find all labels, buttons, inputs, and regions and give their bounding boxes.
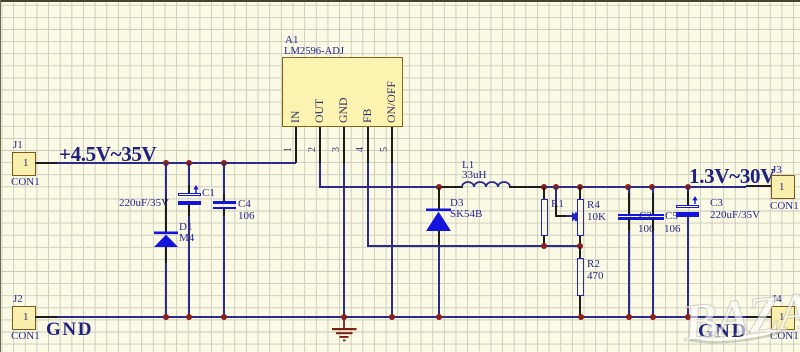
resistor R1: [543, 187, 545, 199]
pin 5: [391, 127, 393, 163]
connector J4: [771, 306, 795, 330]
wire GND pin down: [343, 163, 345, 317]
wire output: [509, 186, 543, 188]
capacitor C1 plus mark: [190, 185, 202, 194]
node R2/gnd: [578, 314, 584, 320]
node C2/gnd: [626, 314, 632, 320]
node D1/gnd: [163, 314, 169, 320]
net label GND left: [46, 320, 93, 339]
wire FB pin down: [367, 163, 369, 246]
watermark: [681, 285, 800, 350]
capacitor C5: [652, 187, 654, 194]
node C5/out: [649, 184, 655, 190]
capacitor C4: [213, 201, 236, 203]
wire switch node: [319, 186, 439, 188]
node IC-GND/gnd: [341, 314, 347, 320]
node wiper/out: [553, 184, 559, 190]
node ON-OFF/gnd: [389, 314, 395, 320]
node C4/gnd: [221, 314, 227, 320]
op-amp U A1 LM2596-ADJ: [282, 57, 403, 127]
wire GND bus: [57, 316, 746, 318]
pin C1 -: [188, 205, 190, 216]
pin 2: [319, 127, 321, 163]
net label 1.3V~30V: [689, 166, 775, 187]
wire FB net: [367, 245, 581, 247]
diode D3: [426, 208, 452, 232]
node C2/out: [625, 184, 631, 190]
pin D3 anode: [438, 231, 440, 245]
pin D1 cathode: [165, 198, 167, 233]
node C3/out: [685, 184, 691, 190]
wire ON/OFF down: [391, 163, 393, 317]
pin 4: [367, 127, 369, 163]
wire D3 bottom: [438, 245, 440, 317]
pin name GND: [338, 97, 350, 123]
wire D1 bottom: [165, 263, 167, 317]
node R1/FB: [541, 243, 547, 249]
pin D3 cathode: [438, 188, 440, 209]
connector J2: [12, 306, 36, 330]
pin name FB: [362, 109, 374, 123]
pin J4-1: [746, 316, 771, 318]
wire D1 top: [165, 163, 167, 198]
pin D1 anode: [165, 247, 167, 263]
net label GND right: [698, 321, 748, 341]
capacitor C3 plus mark: [689, 196, 701, 205]
wire C1 top: [188, 163, 190, 185]
wire C4 bottom: [223, 209, 225, 216]
wire input Vin: [57, 162, 296, 164]
pin 3: [343, 127, 345, 163]
resistor R2: [579, 247, 581, 258]
node R4/out: [577, 184, 583, 190]
potentiometer R4: [579, 187, 581, 199]
connector J3: [771, 175, 795, 199]
wire R4 wiper: [555, 187, 557, 206]
node D3/switch: [436, 184, 442, 190]
pin J2-1: [35, 316, 58, 318]
inductor L1: [462, 180, 510, 188]
capacitor C1: [178, 193, 201, 197]
node D3/gnd: [436, 314, 442, 320]
pin J3-1: [746, 185, 771, 187]
node R2/FB: [577, 243, 583, 249]
pin C1 +: [188, 185, 190, 193]
node C3/gnd: [685, 314, 691, 320]
pin name ON/OFF: [386, 81, 398, 123]
net label +4.5V~35V: [59, 144, 156, 165]
pin 1: [295, 127, 297, 163]
pin name OUT: [314, 99, 326, 123]
node C4/Vin: [221, 160, 227, 166]
node C5/gnd: [650, 314, 656, 320]
wire OUT down: [319, 163, 321, 188]
capacitor C2: [628, 187, 630, 194]
node C1/gnd: [186, 314, 192, 320]
capacitor C3: [687, 187, 689, 192]
ground: [331, 317, 358, 342]
pin J1-1: [35, 162, 58, 164]
diode D1: [153, 231, 179, 249]
node R1/out: [541, 184, 547, 190]
pin name IN: [290, 111, 302, 123]
connector J1: [12, 152, 36, 176]
wire C1 bottom: [188, 216, 190, 317]
node C1/Vin: [186, 160, 192, 166]
wire C4 top: [223, 163, 225, 195]
node D1/Vin: [163, 160, 169, 166]
